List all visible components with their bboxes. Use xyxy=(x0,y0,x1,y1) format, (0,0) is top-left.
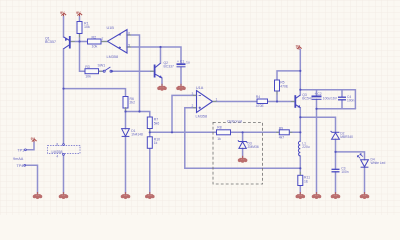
capacitor C1 xyxy=(177,64,186,67)
wire zener top xyxy=(242,132,244,141)
ground at U1 power xyxy=(59,192,69,199)
wire Q1 base to R2 xyxy=(71,41,88,43)
wire R11 top xyxy=(299,168,301,175)
wire left column below power block to ground xyxy=(63,155,65,193)
ground at R11 xyxy=(296,192,306,199)
resistor R8 xyxy=(217,130,231,135)
wire SW1 to Q2 base xyxy=(112,70,154,72)
svg-text:7: 7 xyxy=(102,37,104,41)
ground at D4 xyxy=(360,192,370,199)
svg-text:8: 8 xyxy=(56,142,58,146)
wire R4 to Q3 base xyxy=(268,101,295,103)
resistor R6 xyxy=(123,97,128,109)
svg-text:2k2: 2k2 xyxy=(130,101,136,105)
svg-text:LM358: LM358 xyxy=(52,150,63,154)
svg-text:10k: 10k xyxy=(84,25,90,29)
svg-text:1k: 1k xyxy=(217,137,221,141)
svg-text:220u: 220u xyxy=(302,145,310,149)
ground at C3 xyxy=(331,192,341,199)
svg-text:100u/16V: 100u/16V xyxy=(323,96,338,100)
svg-text:10k: 10k xyxy=(85,75,91,79)
svg-text:BC557: BC557 xyxy=(45,40,56,44)
wire C2 top lead xyxy=(316,90,318,96)
wire bottom rail y107.8 xyxy=(317,108,356,110)
svg-text:SW1: SW1 xyxy=(98,64,106,68)
pin stubs xyxy=(71,34,300,175)
svg-text:ZMM36: ZMM36 xyxy=(248,145,259,149)
svg-text:1u: 1u xyxy=(186,60,190,64)
svg-text:BC547: BC547 xyxy=(302,97,312,101)
resistor R9 xyxy=(279,130,289,135)
wire C3 to ground xyxy=(335,172,337,194)
zener D3 xyxy=(238,140,247,148)
wire VCC to R1 xyxy=(79,16,81,22)
svg-text:1E: 1E xyxy=(304,179,309,183)
wire D2 feed from emitter node xyxy=(300,117,335,132)
svg-text:2: 2 xyxy=(192,104,194,108)
resistor R10 xyxy=(147,137,152,149)
wire R5 top to collector column xyxy=(277,71,300,80)
wire rail y132 mid xyxy=(231,131,280,133)
wire rail y152 to LED xyxy=(336,152,365,160)
diode D2 xyxy=(331,131,340,139)
transistor Q1 xyxy=(64,36,70,49)
resistor R2 xyxy=(88,39,102,44)
ground at Q2 xyxy=(157,84,167,91)
wire R2 to U1B output xyxy=(101,41,107,43)
capacitor C2 xyxy=(312,96,322,99)
optional dashed box xyxy=(213,122,263,184)
svg-text:R8: R8 xyxy=(217,125,221,129)
svg-text:100n: 100n xyxy=(341,170,349,174)
svg-text:R2: R2 xyxy=(92,36,97,40)
svg-text:U1B: U1B xyxy=(107,26,115,30)
wire C2 column to ground xyxy=(316,109,318,194)
svg-text:470E: 470E xyxy=(256,104,265,108)
svg-text:4k7: 4k7 xyxy=(279,135,285,139)
svg-text:3: 3 xyxy=(192,92,194,96)
test pin TP1 xyxy=(25,149,27,151)
ground at R10 xyxy=(145,192,155,199)
wire C4 top lead xyxy=(341,90,343,97)
wire node A rail y90 xyxy=(64,89,126,97)
wire U1A pin3 xyxy=(172,95,197,132)
op-amp U1A xyxy=(197,91,213,113)
wire D1 anode xyxy=(125,112,127,129)
wire U1B pin5 to C1 top xyxy=(127,47,181,64)
svg-text:R3: R3 xyxy=(85,65,90,69)
wire Q3 emitter down xyxy=(299,108,301,142)
wire Q3 collector to VCC xyxy=(299,50,301,96)
wire C3 top lead xyxy=(335,152,337,169)
svg-text:1N4148: 1N4148 xyxy=(131,133,143,137)
svg-text:9mAA: 9mAA xyxy=(13,157,24,161)
wire U1B pin6 xyxy=(127,35,140,112)
wire D1 cathode to ground xyxy=(125,136,127,193)
svg-text:TP1: TP1 xyxy=(17,148,24,152)
wire Q2 collector up xyxy=(160,47,162,63)
wire right edge vertical xyxy=(354,90,356,109)
svg-text:MBR340: MBR340 xyxy=(340,135,353,139)
wire C1 bottom to ground xyxy=(180,67,182,85)
LED D4 xyxy=(357,154,368,167)
svg-text:4: 4 xyxy=(56,154,58,158)
ground at C1 xyxy=(176,84,186,91)
wire R10 to ground xyxy=(149,148,151,193)
svg-text:1k: 1k xyxy=(154,141,158,145)
wire Q2 emitter to ground xyxy=(161,78,163,85)
power flag P2 xyxy=(76,11,82,16)
svg-text:TP4: TP4 xyxy=(17,164,24,168)
wire R3 to SW1 xyxy=(99,70,104,72)
svg-text:BC337: BC337 xyxy=(164,65,174,69)
wire TP1 to supply xyxy=(26,142,34,150)
op-amp U1B xyxy=(107,30,127,53)
wire U1A pin2 to rail y168 xyxy=(185,108,300,169)
wire L1 bottom xyxy=(299,156,301,168)
wire rail y132 right xyxy=(289,131,300,133)
svg-text:R9: R9 xyxy=(279,126,283,130)
svg-text:LM358: LM358 xyxy=(196,114,208,118)
svg-text:5k6: 5k6 xyxy=(154,121,160,125)
ground at D1 xyxy=(121,192,131,199)
svg-text:1: 1 xyxy=(216,97,218,101)
svg-text:100n: 100n xyxy=(347,99,355,103)
resistor R11 xyxy=(298,175,303,185)
diode D1 xyxy=(122,129,130,137)
resistor R3 xyxy=(85,69,99,74)
ground at D3 xyxy=(238,156,248,163)
capacitor C4 xyxy=(338,97,346,100)
wire zener to ground xyxy=(242,148,244,157)
ground at TP4 xyxy=(33,192,43,199)
transistor Q2 xyxy=(155,63,162,78)
wire R6 bottom xyxy=(125,108,127,112)
power-pins box U1 xyxy=(48,144,81,156)
wire R1 to base node xyxy=(79,34,81,42)
power flag P4 xyxy=(31,137,37,142)
svg-text:+ C1: + C1 xyxy=(177,60,184,64)
resistor R1 xyxy=(77,22,82,34)
wire U1A output to R4 xyxy=(213,101,258,103)
power flag P1 xyxy=(60,11,66,16)
wire R5 bottom xyxy=(276,91,278,102)
wire VCC to Q1 emitter xyxy=(63,16,65,37)
svg-text:10k: 10k xyxy=(92,45,98,49)
wire base node down to R3 row xyxy=(80,42,86,72)
svg-text:5: 5 xyxy=(128,43,130,47)
switch SW1 xyxy=(103,67,112,72)
svg-text:6: 6 xyxy=(128,31,130,35)
wire TP4 to ground xyxy=(26,165,38,193)
wire top rail y89.7 xyxy=(300,89,355,91)
svg-text:470E: 470E xyxy=(280,84,289,88)
wire D2 anode down xyxy=(335,139,337,152)
svg-text:LM358: LM358 xyxy=(107,55,119,59)
svg-text:+ C2: + C2 xyxy=(315,92,322,96)
inductor L1 xyxy=(298,141,300,156)
resistor R7 xyxy=(147,117,152,129)
svg-text:U1A: U1A xyxy=(196,86,204,90)
ground at C2 column xyxy=(312,192,322,199)
test pin TP4 xyxy=(24,164,26,166)
svg-text:R4: R4 xyxy=(256,95,260,99)
wire LED to ground xyxy=(364,167,366,193)
wire C2 bottom lead xyxy=(316,99,318,108)
resistor R5 xyxy=(275,80,280,91)
resistor R4 xyxy=(257,99,268,104)
wire R11 to ground xyxy=(299,186,301,194)
wire rail y132 left xyxy=(150,131,217,133)
wire C4 bottom lead xyxy=(341,100,343,109)
svg-text:White Led: White Led xyxy=(371,161,386,165)
capacitor C3 xyxy=(332,169,340,172)
wire rail y110 to R7 xyxy=(126,112,150,118)
transistor Q3 xyxy=(295,95,300,108)
wire Q1 collector down left column xyxy=(63,49,65,144)
svg-text:Optional: Optional xyxy=(227,119,242,124)
power flag P3 xyxy=(296,44,302,49)
wire R7 to R10 node xyxy=(149,129,151,137)
